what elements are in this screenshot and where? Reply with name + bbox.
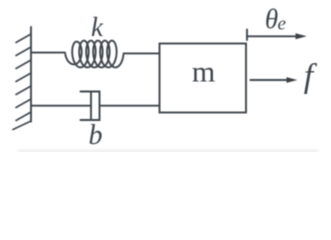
svg-text:b: b (89, 120, 103, 151)
svg-text:f: f (304, 58, 318, 95)
svg-text:m: m (192, 56, 215, 89)
wall (30, 27, 32, 122)
theta_e reference tick (246, 30, 248, 41)
wall hatching (13, 34, 31, 130)
wire wall to spring (31, 52, 65, 54)
theta_e arrow (247, 35, 297, 37)
svg-text:θ: θ (265, 4, 278, 34)
svg-text:e: e (278, 14, 286, 35)
force f arrow (250, 79, 288, 81)
wire spring to mass (124, 52, 160, 54)
svg-text:k: k (91, 12, 104, 42)
scan artifact band (18, 150, 318, 153)
damper cylinder (81, 92, 100, 121)
damper piston plate (90, 92, 92, 119)
spring k coil (65, 41, 123, 68)
mass block m (160, 44, 247, 113)
wire damper to mass (100, 105, 160, 107)
wire wall to damper piston rod (31, 105, 91, 107)
